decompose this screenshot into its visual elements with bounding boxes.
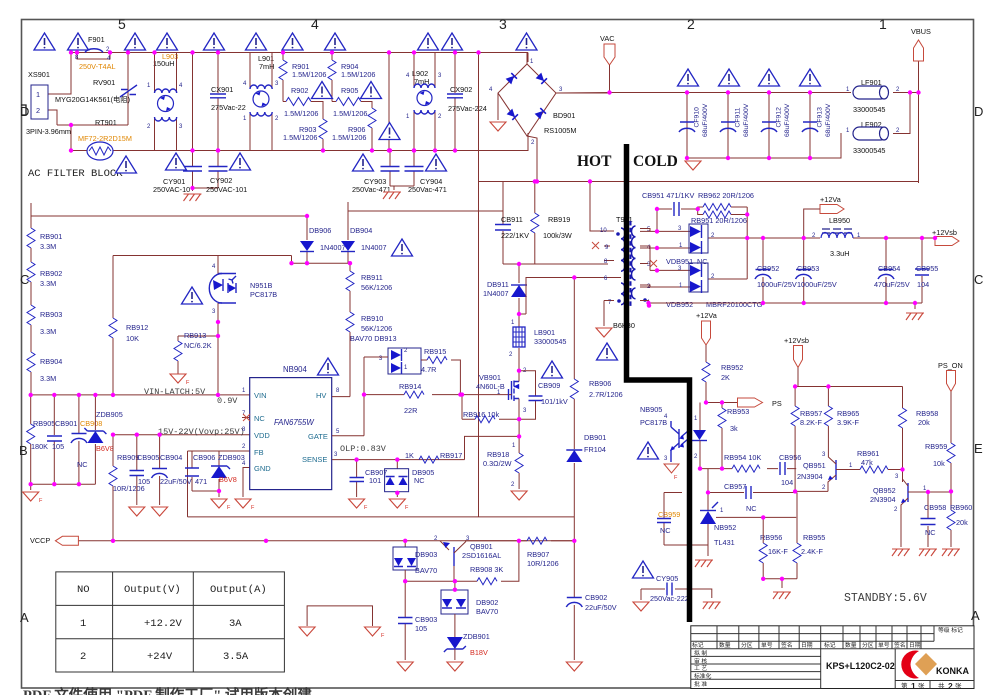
ground below bridge pin4 xyxy=(490,122,506,131)
resistor RB962 xyxy=(698,191,754,211)
svg-text:BAV70: BAV70 xyxy=(476,607,498,616)
capacitor CY903 xyxy=(352,151,400,195)
svg-text:RB919: RB919 xyxy=(548,215,570,224)
svg-text:VIN-LATCH:5V: VIN-LATCH:5V xyxy=(144,387,206,397)
svg-text:CB958: CB958 xyxy=(924,503,946,512)
PS_ON flag xyxy=(938,361,963,443)
warning triangle xyxy=(542,361,563,378)
capacitor CB903 xyxy=(398,581,437,660)
ground below T901 pin7 xyxy=(596,328,612,337)
svg-text:22uF/50V: 22uF/50V xyxy=(160,477,192,486)
warning triangle xyxy=(361,82,382,99)
svg-text:+12Va: +12Va xyxy=(696,311,718,320)
svg-text:CF912: CF912 xyxy=(776,107,783,128)
warning triangle xyxy=(633,561,654,578)
svg-text:2N3904: 2N3904 xyxy=(870,495,896,504)
+12Va flag top xyxy=(804,195,844,238)
svg-text:20k: 20k xyxy=(956,518,968,527)
svg-text:ZDB905: ZDB905 xyxy=(96,410,123,419)
transistor QB951 xyxy=(797,452,853,491)
svg-text:101/1kV: 101/1kV xyxy=(541,397,568,406)
svg-text:RB952: RB952 xyxy=(721,363,743,372)
resistor RB954 xyxy=(724,453,761,472)
ground below QB952 xyxy=(892,549,910,556)
capacitor CB906 xyxy=(185,451,215,491)
wire: CY901 branch xyxy=(192,53,194,151)
svg-text:CB909: CB909 xyxy=(538,381,560,390)
svg-text:OLP:0.83V: OLP:0.83V xyxy=(340,444,387,454)
svg-text:2: 2 xyxy=(36,106,40,115)
choke L901 xyxy=(243,53,279,151)
svg-text:分区: 分区 xyxy=(862,641,874,649)
svg-text:ZDB901: ZDB901 xyxy=(463,632,490,641)
svg-text:C: C xyxy=(20,272,29,287)
ground on secondary bus xyxy=(914,303,916,309)
ground below CY903 xyxy=(383,192,401,199)
ground below CB907 xyxy=(349,499,365,508)
ground below CB903 xyxy=(397,662,413,671)
transformer T901 xyxy=(590,183,657,326)
warning triangle xyxy=(353,154,374,171)
svg-text:2: 2 xyxy=(80,651,86,663)
diode DB901 xyxy=(566,433,606,541)
capacitor CX901 xyxy=(210,53,246,151)
svg-text:100k/3W: 100k/3W xyxy=(543,231,572,240)
wire: RV901 vertical xyxy=(71,53,128,151)
inductor LB950 xyxy=(812,216,861,258)
svg-text:KPS+L120C2-02: KPS+L120C2-02 xyxy=(826,661,895,671)
wire: long rail x478.5 xyxy=(478,53,480,517)
svg-text:105: 105 xyxy=(138,477,150,486)
svg-text:DB906: DB906 xyxy=(309,226,331,235)
svg-text:RB955: RB955 xyxy=(803,533,825,542)
capacitor CB957 xyxy=(724,482,757,513)
diode DB911 xyxy=(483,264,527,314)
svg-text:PS: PS xyxy=(772,399,782,408)
ground shield right xyxy=(365,627,381,636)
capacitor CB951 xyxy=(642,191,698,231)
wire: LF902 output jog xyxy=(893,93,910,134)
svg-text:68uF/400V: 68uF/400V xyxy=(825,103,832,137)
svg-text:CB903: CB903 xyxy=(415,615,437,624)
svg-text:56K/1206: 56K/1206 xyxy=(361,283,392,292)
svg-text:5: 5 xyxy=(118,16,126,32)
ground below ZDB903 xyxy=(211,499,227,508)
VAC flag xyxy=(600,34,615,93)
diode DB906 xyxy=(300,216,346,263)
svg-text:RB904: RB904 xyxy=(40,357,62,366)
svg-text:3.3uH: 3.3uH xyxy=(830,249,849,258)
ground below CB904 xyxy=(152,507,168,516)
warning triangle xyxy=(182,287,203,304)
capacitor CB902 xyxy=(566,541,616,660)
wire: VDD line xyxy=(113,434,250,436)
svg-text:NC: NC xyxy=(925,528,936,537)
svg-text:10R/1206: 10R/1206 xyxy=(527,559,559,568)
ground below ZDB901 xyxy=(447,662,463,671)
warning triangle xyxy=(325,33,346,50)
svg-text:CB951 471/1KV: CB951 471/1KV xyxy=(642,191,694,200)
capacitor CB958 xyxy=(921,492,947,547)
svg-text:+12Va: +12Va xyxy=(820,195,842,204)
svg-text:3PIN-3.96mm: 3PIN-3.96mm xyxy=(26,127,71,136)
capacitor CF911 xyxy=(720,103,750,137)
svg-text:NC: NC xyxy=(746,504,757,513)
svg-text:RB960: RB960 xyxy=(950,503,972,512)
resistor RB952 xyxy=(696,311,743,403)
svg-text:275Vac-22: 275Vac-22 xyxy=(211,103,246,112)
capacitor CB953 xyxy=(796,238,837,303)
wire: RB905 group bottom bus xyxy=(31,484,96,490)
resistor RB953 xyxy=(718,403,749,469)
svg-text:RB902: RB902 xyxy=(40,269,62,278)
svg-text:CX902: CX902 xyxy=(450,85,472,94)
svg-text:RB962 20R/1206: RB962 20R/1206 xyxy=(698,191,754,200)
svg-text:RS1005M: RS1005M xyxy=(544,126,576,135)
capacitor CY905 xyxy=(641,574,712,603)
barrier line xyxy=(627,144,690,622)
wire: +12V rail y238 xyxy=(763,237,935,239)
svg-text:共: 共 xyxy=(938,681,945,690)
svg-text:+12.2V: +12.2V xyxy=(144,618,183,630)
svg-text:33000545: 33000545 xyxy=(534,337,566,346)
capacitor CB959 xyxy=(657,493,708,546)
capacitor CB909 xyxy=(519,371,568,420)
svg-text:2: 2 xyxy=(948,681,953,691)
svg-text:105: 105 xyxy=(52,442,64,451)
svg-text:10k: 10k xyxy=(933,459,945,468)
svg-text:1N4007: 1N4007 xyxy=(483,289,509,298)
svg-text:CB954: CB954 xyxy=(878,264,900,273)
svg-text:D: D xyxy=(974,104,983,119)
svg-text:RB912: RB912 xyxy=(126,323,148,332)
warning triangle xyxy=(379,123,400,140)
wire: CY903/904 mid ground xyxy=(393,186,395,190)
capacitor CB908 xyxy=(71,395,102,484)
svg-text:RB959: RB959 xyxy=(925,442,947,451)
svg-text:DB902: DB902 xyxy=(476,598,498,607)
svg-text:CB953: CB953 xyxy=(797,264,819,273)
svg-text:4: 4 xyxy=(311,16,319,32)
resistor RB958 xyxy=(899,387,939,483)
resistor RB906 xyxy=(570,278,622,450)
IC NB904 FAN6755W xyxy=(242,365,340,490)
dual diode VDB952 xyxy=(640,248,763,309)
svg-text:RB965: RB965 xyxy=(837,409,859,418)
svg-text:数量: 数量 xyxy=(719,641,731,649)
wire: TL431 node line xyxy=(708,469,796,493)
svg-text:QB952: QB952 xyxy=(873,486,896,495)
svg-text:NB904: NB904 xyxy=(283,365,308,374)
svg-text:NB952: NB952 xyxy=(714,523,736,532)
+12Vsb flag right xyxy=(932,228,959,246)
svg-text:张: 张 xyxy=(955,681,962,690)
resistor R901 xyxy=(279,53,326,102)
svg-text:250Vac-471: 250Vac-471 xyxy=(352,185,391,194)
svg-text:F901: F901 xyxy=(88,35,105,44)
capacitor CY902 xyxy=(193,151,248,195)
svg-text:3.3M: 3.3M xyxy=(40,374,56,383)
svg-text:工 艺: 工 艺 xyxy=(694,664,707,672)
wire: source stair xyxy=(465,419,520,459)
ground for IC GND pin xyxy=(243,468,250,498)
svg-text:1.5M/1206: 1.5M/1206 xyxy=(283,133,317,142)
svg-text:CF913: CF913 xyxy=(817,107,824,128)
warning triangle xyxy=(678,69,699,86)
svg-text:1000uF/25V: 1000uF/25V xyxy=(797,280,837,289)
svg-text:Output(A): Output(A) xyxy=(210,584,267,596)
svg-text:分区: 分区 xyxy=(741,641,753,649)
svg-text:NC: NC xyxy=(660,526,671,535)
svg-text:VBUS: VBUS xyxy=(911,27,931,36)
svg-text:1N4007: 1N4007 xyxy=(361,243,387,252)
dual diode DB905 xyxy=(385,460,435,497)
capacitor CB907 xyxy=(350,460,388,497)
svg-text:DB904: DB904 xyxy=(350,226,372,235)
svg-text:NO: NO xyxy=(77,584,90,596)
ground below DB905 xyxy=(389,499,405,508)
svg-text:104: 104 xyxy=(917,280,929,289)
svg-text:RB914: RB914 xyxy=(399,382,421,391)
svg-text:R905: R905 xyxy=(341,86,358,95)
svg-text:N951B: N951B xyxy=(250,281,272,290)
svg-text:日期: 日期 xyxy=(909,642,921,649)
resistor RB916 xyxy=(462,395,519,423)
svg-text:A: A xyxy=(20,610,29,625)
svg-text:CB908: CB908 xyxy=(80,419,102,428)
choke L903 xyxy=(147,52,183,151)
svg-text:CB955: CB955 xyxy=(916,264,938,273)
svg-text:CF910: CF910 xyxy=(694,107,701,128)
ground below CB905 xyxy=(129,507,145,516)
resistor R906 xyxy=(332,108,376,151)
ground below CY905 left xyxy=(633,602,649,611)
svg-text:BAV70: BAV70 xyxy=(415,566,437,575)
svg-text:3.3M: 3.3M xyxy=(40,242,56,251)
svg-text:签名: 签名 xyxy=(894,641,906,649)
transistor QB901 xyxy=(434,536,501,581)
capacitor CF912 xyxy=(761,103,791,137)
svg-text:B: B xyxy=(19,443,28,458)
wire: drain from LB901 xyxy=(518,348,520,371)
svg-text:DB903: DB903 xyxy=(415,550,437,559)
svg-text:GATE: GATE xyxy=(308,432,328,441)
svg-text:单号: 单号 xyxy=(761,641,773,649)
svg-text:250Vac-471: 250Vac-471 xyxy=(408,185,447,194)
svg-text:68uF/400V: 68uF/400V xyxy=(743,103,750,137)
svg-text:批 准: 批 准 xyxy=(694,680,707,688)
svg-text:FR104: FR104 xyxy=(584,445,606,454)
svg-text:MBRF20100CTG: MBRF20100CTG xyxy=(706,300,763,309)
svg-text:第: 第 xyxy=(901,681,908,690)
resistor RB960 xyxy=(947,503,972,547)
wire: main DC line xyxy=(556,92,919,95)
warning triangle xyxy=(157,33,178,50)
ground below RB960 xyxy=(942,549,960,556)
svg-text:3A: 3A xyxy=(229,618,242,630)
svg-text:FB: FB xyxy=(254,448,264,457)
wire: wire A y216 xyxy=(31,203,307,216)
warning triangle xyxy=(246,33,267,50)
svg-text:16K-F: 16K-F xyxy=(768,547,788,556)
svg-text:1: 1 xyxy=(80,618,86,630)
svg-text:+12Vsb: +12Vsb xyxy=(932,228,957,237)
VBUS flag xyxy=(911,27,931,61)
resistor RB912 xyxy=(109,256,218,395)
svg-text:单号: 单号 xyxy=(878,641,890,649)
svg-text:CB956: CB956 xyxy=(779,453,801,462)
svg-text:标记: 标记 xyxy=(824,641,836,649)
svg-text:RB957: RB957 xyxy=(800,409,822,418)
thermistor RT901 xyxy=(78,118,132,160)
svg-text:RB906: RB906 xyxy=(589,379,611,388)
svg-text:QB951: QB951 xyxy=(803,461,826,470)
svg-text:拟 制: 拟 制 xyxy=(694,649,707,657)
resistor RB918 xyxy=(483,443,523,489)
warning triangle xyxy=(125,33,146,50)
svg-text:LB950: LB950 xyxy=(829,216,850,225)
warning triangle xyxy=(312,82,333,99)
svg-text:签名: 签名 xyxy=(781,641,793,649)
capacitor CB955 xyxy=(915,238,938,303)
wire: snubber bottom to T901 pin8 xyxy=(503,263,608,265)
svg-text:CB901: CB901 xyxy=(55,419,77,428)
warning triangle xyxy=(442,33,463,50)
svg-text:1.5M/1206: 1.5M/1206 xyxy=(332,133,366,142)
dual diode DB913 BAV70 xyxy=(350,334,421,436)
svg-text:22R: 22R xyxy=(404,406,417,415)
resistor RB951 xyxy=(691,207,747,279)
VCCP flag xyxy=(30,536,78,545)
resistor R905 xyxy=(332,86,372,118)
warning triangle xyxy=(166,153,187,170)
+12Vsb flag mid xyxy=(784,336,809,387)
svg-text:1.5M/1206: 1.5M/1206 xyxy=(341,70,375,79)
warning triangle xyxy=(638,442,659,459)
svg-text:DB911: DB911 xyxy=(487,280,509,289)
wire: SENSE line xyxy=(332,459,465,461)
warning triangle xyxy=(392,239,413,256)
resistor RB907 xyxy=(465,537,574,568)
capacitor CY904 xyxy=(390,151,447,195)
wire: QB952 base to RB959 xyxy=(925,491,951,510)
svg-text:275Vac-224: 275Vac-224 xyxy=(448,104,487,113)
ground below CY901 xyxy=(184,194,202,201)
fuse F901 xyxy=(75,35,116,71)
svg-text:VDB952: VDB952 xyxy=(666,300,693,309)
svg-text:NC: NC xyxy=(77,460,88,469)
svg-text:105: 105 xyxy=(415,624,427,633)
resistor RB909 xyxy=(109,435,145,541)
capacitor CB905 xyxy=(130,435,160,505)
resistor RB908 xyxy=(405,541,519,585)
svg-text:NC: NC xyxy=(254,414,265,423)
resistor RB959 xyxy=(925,442,955,491)
svg-text:CY905: CY905 xyxy=(656,574,678,583)
wire: DC return line y183 xyxy=(479,136,919,182)
svg-text:CB906: CB906 xyxy=(193,453,215,462)
varistor RV901 xyxy=(93,78,137,97)
wire: right rail x389 xyxy=(388,53,390,151)
svg-text:TL431: TL431 xyxy=(714,538,735,547)
warning triangle xyxy=(34,33,55,50)
svg-text:R902: R902 xyxy=(291,86,308,95)
dual diode VDB951 xyxy=(640,224,763,266)
svg-text:1.5M/1206: 1.5M/1206 xyxy=(284,109,318,118)
svg-text:HV: HV xyxy=(316,391,326,400)
svg-text:22uF/50V: 22uF/50V xyxy=(585,603,617,612)
wire: base line y468.6 xyxy=(700,468,796,470)
wire: GATE pin xyxy=(332,435,364,437)
wire: pin6 line xyxy=(519,278,608,315)
svg-text:D: D xyxy=(20,104,29,119)
resistor RB904 xyxy=(27,352,62,395)
svg-text:4.7R: 4.7R xyxy=(421,365,436,374)
svg-text:日期: 日期 xyxy=(801,642,813,649)
resistor RB919 xyxy=(531,182,572,265)
svg-text:RB905: RB905 xyxy=(33,419,55,428)
svg-text:RB954 10K: RB954 10K xyxy=(724,453,761,462)
resistor R902 xyxy=(283,86,323,119)
svg-text:1.5M/1206: 1.5M/1206 xyxy=(292,70,326,79)
warning triangle xyxy=(426,154,447,171)
svg-text:CB911: CB911 xyxy=(501,215,523,224)
svg-text:1: 1 xyxy=(879,16,887,32)
svg-text:15V-22V(Vovp:25V): 15V-22V(Vovp:25V) xyxy=(158,427,245,437)
choke L902 xyxy=(406,53,442,151)
svg-text:1.5M/1206: 1.5M/1206 xyxy=(333,109,367,118)
opto NB905 xyxy=(640,403,707,469)
svg-text:MYG20G14K561(电阻): MYG20G14K561(电阻) xyxy=(55,95,130,104)
capacitor CB952 xyxy=(755,238,797,303)
wire: fuse lower loop xyxy=(77,53,110,60)
svg-text:B6V8: B6V8 xyxy=(219,475,237,484)
svg-text:RB915: RB915 xyxy=(424,347,446,356)
svg-text:NC: NC xyxy=(697,257,708,266)
svg-text:MF72-2R2D15M: MF72-2R2D15M xyxy=(78,134,132,143)
svg-text:VIN: VIN xyxy=(254,391,267,400)
svg-text:VCCP: VCCP xyxy=(30,536,50,545)
ground below CF910 xyxy=(685,161,701,170)
capacitor CF910 xyxy=(679,103,709,137)
wire: CF bottom bus xyxy=(687,93,841,159)
resistor RB914 xyxy=(364,382,509,415)
resistor RB957 xyxy=(791,387,822,492)
capacitor CF913 xyxy=(802,103,832,137)
resistor R904 xyxy=(328,53,375,102)
svg-text:RB911: RB911 xyxy=(361,273,383,282)
svg-text:AC FILTER BLOCK: AC FILTER BLOCK xyxy=(28,168,123,180)
svg-text:NC/6.2K: NC/6.2K xyxy=(184,341,212,350)
ground below CB902 xyxy=(566,662,582,671)
resistor RB910 xyxy=(346,312,392,397)
transistor QB952 xyxy=(870,470,927,548)
warning triangle xyxy=(318,358,339,375)
svg-text:张: 张 xyxy=(918,681,925,690)
warning triangle xyxy=(800,69,821,86)
svg-text:2K: 2K xyxy=(721,373,730,382)
zener ZDB901 xyxy=(444,632,490,660)
snubber capacitor CB911 xyxy=(495,182,529,265)
svg-text:CB952: CB952 xyxy=(757,264,779,273)
svg-text:+24V: +24V xyxy=(147,651,173,663)
svg-text:标记: 标记 xyxy=(692,641,704,649)
svg-text:FAN6755W: FAN6755W xyxy=(274,418,314,427)
warning triangle xyxy=(719,69,740,86)
svg-text:RB961: RB961 xyxy=(857,449,879,458)
svg-text:RB909: RB909 xyxy=(117,453,139,462)
wire: VBUS drop to return line xyxy=(918,61,920,183)
